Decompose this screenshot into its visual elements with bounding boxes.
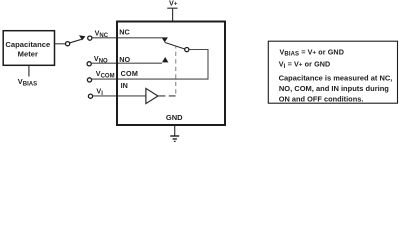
svg-text:IN: IN (121, 81, 128, 90)
V+ terminal tick (167, 7, 177, 9)
ground symbol (170, 135, 179, 137)
svg-text:NO: NO (119, 55, 130, 64)
wire meter to switch pivot (55, 43, 65, 45)
terminal VI circle (88, 94, 92, 98)
svg-text:V+: V+ (169, 0, 178, 7)
svg-text:NO, COM, and IN inputs during: NO, COM, and IN inputs during (279, 84, 389, 93)
dashed control wire horizontal (159, 95, 178, 97)
wire VCOM / COM pole run (92, 50, 208, 80)
terminal VNC circle (88, 36, 92, 40)
svg-text:GND: GND (166, 113, 183, 122)
buffer amplifier (146, 88, 158, 103)
dashed control wire vertical (175, 47, 177, 94)
switch arm (external) (70, 39, 82, 43)
switch arrowhead (external) (79, 35, 85, 40)
V+ wire into box (172, 8, 174, 20)
wire VI to buffer (93, 95, 145, 97)
svg-text:NC: NC (119, 28, 129, 37)
svg-text:VBIAS: VBIAS (18, 77, 37, 87)
svg-text:Meter: Meter (18, 50, 38, 59)
svg-text:COM: COM (121, 69, 139, 78)
IC box (117, 22, 225, 126)
svg-text:Capacitance: Capacitance (5, 40, 50, 49)
NC contact arrow (162, 37, 168, 42)
NO contact arrow (162, 57, 168, 62)
svg-text:ON and OFF conditions.: ON and OFF conditions. (279, 94, 364, 103)
switch pivot circle (external) (66, 42, 70, 46)
internal pivot circle (185, 48, 189, 52)
capacitance meter box (3, 31, 54, 66)
internal switch arm (165, 42, 185, 49)
ground wire (174, 126, 176, 136)
terminal VCOM circle (87, 78, 91, 82)
wire VNO to NO contact (92, 62, 162, 64)
terminal VNO circle (87, 62, 91, 66)
svg-text:VCOM: VCOM (96, 69, 115, 79)
svg-text:Capacitance is measured at NC,: Capacitance is measured at NC, (279, 74, 393, 83)
notes box (268, 41, 397, 103)
svg-text:VI = V+ or GND: VI = V+ or GND (279, 60, 331, 70)
VBIAS stub wire (28, 66, 30, 77)
wire VNC to NC contact (92, 37, 162, 39)
